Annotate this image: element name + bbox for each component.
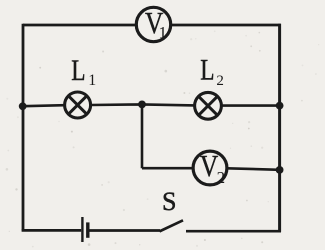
switch S lever: [160, 220, 184, 231]
wire bottom-right segment (switch to corner): [186, 230, 281, 233]
svg-text:2: 2: [216, 73, 224, 89]
voltmeter V1: [136, 7, 170, 42]
wire middle branch, left of L1: [23, 105, 64, 106]
voltmeter V2: [193, 150, 227, 187]
wire V2 left segment: [142, 167, 193, 170]
wire middle branch, between L1 and L2: [91, 104, 195, 105]
wire top-left segment: [23, 24, 136, 27]
svg-text:L: L: [71, 53, 85, 86]
wire bottom-left segment: [22, 229, 82, 232]
svg-text:1: 1: [88, 72, 96, 89]
lamp L2: [195, 92, 222, 119]
wire V2 vertical drop from node B: [141, 104, 144, 168]
node D (right wire, V2 branch): [276, 166, 284, 174]
wire bottom-middle segment (battery to switch): [89, 229, 160, 232]
wire V2 right segment: [227, 168, 280, 170]
label L1: [71, 53, 96, 89]
wire middle branch, right of L2: [221, 104, 279, 107]
node C (right wire, middle branch): [276, 102, 284, 110]
svg-text:1: 1: [159, 23, 168, 42]
battery cell: [82, 217, 87, 242]
node B (between lamps): [138, 101, 146, 109]
svg-text:2: 2: [217, 168, 226, 187]
wire top-right segment: [171, 24, 281, 27]
wire right side: [278, 24, 281, 232]
svg-text:L: L: [200, 53, 214, 86]
label L2: [200, 53, 224, 89]
wire left side: [22, 24, 25, 231]
lamp L1: [65, 92, 91, 118]
node A (left wire junction): [19, 102, 27, 110]
svg-text:S: S: [162, 187, 176, 216]
